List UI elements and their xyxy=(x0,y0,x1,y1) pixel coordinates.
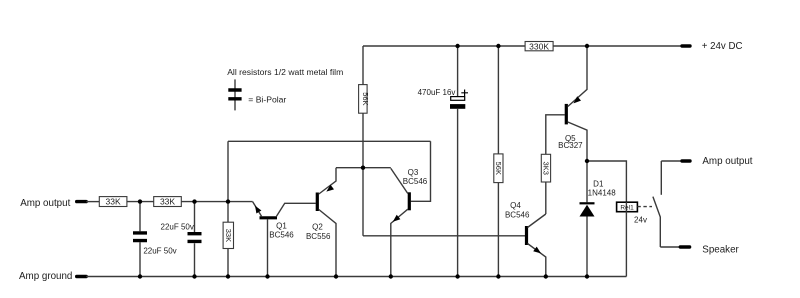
svg-text:3K3: 3K3 xyxy=(542,162,551,175)
wire 3K3 bottom lead xyxy=(545,182,547,214)
wire 33K R5 bottom lead xyxy=(227,249,229,277)
svg-text:56K: 56K xyxy=(361,92,370,105)
transistor Q3 emitter lead xyxy=(391,209,408,276)
transistor Q5 emitter arrow xyxy=(574,96,582,103)
resistor 33K R1 xyxy=(99,197,127,207)
wire 3K3 top lead to Q5 base xyxy=(546,115,565,155)
svg-text:Q3: Q3 xyxy=(408,168,419,177)
wire R2 to Q1 xyxy=(181,201,252,203)
transistor Q4 collector lead xyxy=(528,214,546,228)
wire 56K R3 bottom lead to node xyxy=(362,113,364,168)
wire 470uF bottom lead xyxy=(457,109,459,277)
resistor 330K R6 xyxy=(525,42,553,51)
resistor 3K3 R7 xyxy=(541,154,550,182)
wire ground bus xyxy=(86,276,626,278)
node gnd-33K xyxy=(226,274,230,278)
svg-text:Speaker: Speaker xyxy=(702,244,739,255)
svg-text:BC546: BC546 xyxy=(403,177,428,186)
svg-text:33K: 33K xyxy=(224,229,233,242)
wire 56K R4 bottom lead xyxy=(497,183,499,277)
svg-text:Q4: Q4 xyxy=(510,201,521,210)
svg-text:33K: 33K xyxy=(106,197,121,207)
transistor Q1 base bar xyxy=(260,216,278,219)
transistor Q5 collector lead xyxy=(568,122,587,161)
wire R1 to R2 xyxy=(127,201,154,203)
node gnd-470uF xyxy=(455,274,459,278)
diode D1 triangle xyxy=(580,205,595,217)
relay coil Rel1 box xyxy=(617,202,638,212)
resistor 56K (R3 vertical, left) xyxy=(359,85,368,114)
legend bipolar cap plates xyxy=(228,90,241,99)
terminal Amp ground xyxy=(77,275,87,278)
svg-text:BC556: BC556 xyxy=(306,232,331,241)
wire line A left vertical down to 33K junction xyxy=(227,141,229,201)
wire 56K R4 top lead xyxy=(497,46,499,154)
svg-text:24v: 24v xyxy=(634,215,647,224)
svg-text:330K: 330K xyxy=(529,41,549,51)
node rail-Q5 xyxy=(585,44,589,48)
capacitor C1 22uF plates xyxy=(133,233,147,241)
wire 470uF top lead xyxy=(457,46,459,97)
wire switch top to terminal xyxy=(661,160,681,162)
resistor 56K (R4 vertical, right) xyxy=(494,154,503,183)
svg-text:22uF 50v: 22uF 50v xyxy=(143,246,176,255)
svg-text:33K: 33K xyxy=(160,197,175,207)
transistor Q3 emitter arrow xyxy=(393,215,401,222)
wire Q1 to ground xyxy=(267,219,269,276)
transistor Q2 base bar xyxy=(316,193,319,212)
node gnd-Q4 xyxy=(544,274,548,278)
terminal Amp output (right) xyxy=(682,159,690,162)
terminal +24v DC xyxy=(682,44,690,47)
capacitor C3 470uF bottom plate xyxy=(450,104,465,109)
node input-33K xyxy=(226,199,230,203)
node gnd-D1 xyxy=(585,274,589,278)
svg-text:BC546: BC546 xyxy=(269,231,294,240)
transistor Q2 collector lead xyxy=(319,210,336,277)
capacitor C1 22uF leads xyxy=(139,202,141,277)
node gnd-56K xyxy=(496,274,500,278)
svg-text:D1: D1 xyxy=(593,179,604,188)
wire +24v top rail xyxy=(363,45,681,47)
switch top contact xyxy=(660,161,662,195)
transistor Q1 emitter arrow xyxy=(255,206,261,214)
wire node B to Q4 base run (vertical) xyxy=(362,168,364,236)
wire switch bottom to terminal xyxy=(660,246,679,248)
svg-text:Amp output: Amp output xyxy=(702,156,752,167)
transistor Q4 emitter arrow xyxy=(533,247,541,254)
capacitor C3 470uF top plate xyxy=(451,97,465,101)
transistor Q1 emitter lead (from input wire) xyxy=(253,202,262,217)
svg-text:= Bi-Polar: = Bi-Polar xyxy=(248,94,286,104)
transistor Q5 emitter lead xyxy=(568,46,587,107)
terminal Speaker xyxy=(680,245,689,248)
wire 56K R3 top lead xyxy=(362,46,364,85)
plus sign 470uF polarity xyxy=(461,90,468,97)
wire Q4 base horizontal xyxy=(363,235,526,237)
transistor Q4 emitter lead xyxy=(528,244,546,277)
node dots xyxy=(138,44,589,279)
node input-C2 xyxy=(192,199,196,203)
node gnd-C1 xyxy=(138,274,142,278)
wire line A right vertical down to Q3 base xyxy=(411,141,431,201)
dashed relay actuator link xyxy=(637,206,652,208)
node rail-56K xyxy=(496,44,500,48)
wire Q5 collector node to relay xyxy=(587,161,626,202)
svg-text:BC327: BC327 xyxy=(558,141,583,150)
wire input to R1 xyxy=(86,201,99,203)
svg-text:Q2: Q2 xyxy=(312,223,323,232)
diode D1 bottom lead xyxy=(586,217,588,277)
svg-text:Amp ground: Amp ground xyxy=(19,271,72,282)
transistor Q3 collector lead xyxy=(391,168,408,193)
switch blade xyxy=(653,197,660,247)
svg-text:Q1: Q1 xyxy=(276,222,287,231)
svg-text:All resistors 1/2 watt metal f: All resistors 1/2 watt metal film xyxy=(227,67,343,77)
wire 33K R5 top lead xyxy=(227,202,229,223)
wire line B (Q2 emitter to Q3 collector) xyxy=(336,167,391,169)
node gnd-Q1 xyxy=(265,274,269,278)
node gnd-C2 xyxy=(192,274,196,278)
diode D1 cathode bar xyxy=(580,202,595,204)
svg-text:Rel1: Rel1 xyxy=(620,205,634,212)
node gnd-Q2 xyxy=(334,274,338,278)
svg-text:+ 24v DC: + 24v DC xyxy=(702,41,743,52)
transistor Q2 emitter arrow xyxy=(326,185,334,192)
diode D1 top lead xyxy=(586,161,588,202)
terminal Amp output (left) xyxy=(77,200,87,203)
legend bipolar cap lead xyxy=(234,79,236,110)
node line B junction xyxy=(361,166,365,170)
transistor Q3 base bar xyxy=(408,192,411,210)
svg-text:22uF 50v: 22uF 50v xyxy=(161,222,194,231)
transistor Q1 collector lead xyxy=(277,203,316,216)
svg-text:470uF 16v: 470uF 16v xyxy=(418,88,456,97)
node gnd-Q3 xyxy=(389,274,393,278)
wire relay interior xyxy=(625,202,627,212)
transistor Q2 emitter lead xyxy=(319,168,336,194)
node Q5 collector / D1 / relay xyxy=(585,159,589,163)
svg-text:Amp output: Amp output xyxy=(20,198,70,209)
wire line A horizontal (feedback to Q3 base) xyxy=(228,140,431,142)
capacitor C2 22uF plates xyxy=(188,234,202,242)
svg-text:1N4148: 1N4148 xyxy=(588,189,617,198)
wire relay bottom lead to ground xyxy=(625,212,627,277)
node input-C1 xyxy=(138,199,142,203)
svg-text:BC546: BC546 xyxy=(505,211,530,220)
resistor 33K (R5 vertical) xyxy=(223,222,233,248)
svg-text:56K: 56K xyxy=(494,162,503,175)
capacitor C2 22uF leads xyxy=(194,202,196,277)
transistor Q5 base bar xyxy=(565,104,568,125)
transistor Q4 base bar xyxy=(525,226,528,245)
resistor 33K R2 xyxy=(154,197,182,207)
node rail-470uF xyxy=(455,44,459,48)
